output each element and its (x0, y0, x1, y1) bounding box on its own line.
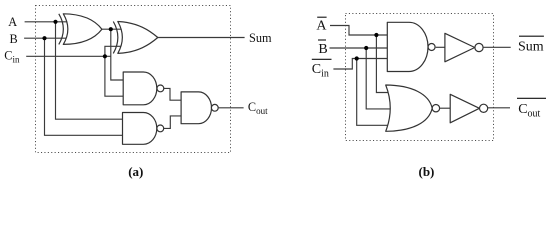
inverter U7 (445, 33, 483, 62)
wire Cin-bar branch to NOR (357, 59, 392, 126)
svg-text:B: B (10, 32, 18, 46)
svg-text:Cout: Cout (248, 100, 268, 116)
dashed enclosure box (b) (346, 14, 494, 141)
svg-text:Cin: Cin (4, 49, 20, 65)
XOR gate U2 (sum) (113, 22, 158, 54)
junction dot B (42, 36, 46, 40)
svg-text:Cin: Cin (312, 62, 329, 80)
wire NOR U8 to inverter U9 (440, 107, 451, 109)
junction dot A (53, 20, 57, 24)
overline of Sum-bar (519, 35, 544, 37)
overline of A-bar (317, 16, 326, 18)
junction dot A-bar (374, 33, 378, 37)
dashed enclosure box (a) (36, 6, 231, 153)
wire XOR1 branch to NAND1 (111, 29, 123, 80)
wire Cout output (218, 107, 244, 109)
overline of B-bar (318, 39, 326, 41)
wire Cin branch to XOR2 and NAND1 (105, 46, 123, 96)
inverter U9 (450, 94, 488, 123)
NAND gate U4 (bottom) (123, 113, 164, 145)
wire input A (25, 21, 68, 23)
wire NAND U6 to inverter U7 (436, 46, 446, 48)
overline of Cin-bar (312, 58, 332, 60)
wire Cout-bar output (488, 107, 510, 109)
NAND gate U6 (387, 22, 435, 71)
wire NAND U3 to NAND U5 (163, 88, 181, 100)
wire B-bar branch to NOR (366, 48, 392, 109)
XOR gate U1 (A xor B) (59, 14, 102, 45)
wire Sum output (158, 37, 245, 39)
wire input B (24, 37, 67, 39)
svg-text:(b): (b) (419, 164, 435, 179)
wire A-bar branch to NOR (376, 35, 392, 93)
svg-text:A: A (8, 15, 17, 29)
junction dot Cin (103, 54, 107, 58)
svg-text:B: B (318, 42, 327, 57)
NAND gate U3 (middle) (123, 72, 164, 105)
wire B-bar input (330, 47, 388, 49)
svg-text:A: A (316, 18, 327, 33)
wire input Cin (26, 55, 111, 57)
svg-text:Sum: Sum (518, 40, 544, 55)
wire B branch to NAND2 (45, 38, 123, 135)
wire A-bar input (330, 26, 387, 36)
svg-text:Sum: Sum (249, 31, 272, 45)
wire Sum-bar output (483, 46, 511, 48)
svg-text:(a): (a) (128, 164, 143, 179)
junction dot Cin-bar (355, 56, 359, 60)
overline of Cout-bar (517, 97, 546, 99)
junction dot B-bar (364, 46, 368, 50)
wire XOR1 output to XOR2 (102, 28, 122, 30)
wire Cin-bar input (333, 59, 387, 70)
wire NAND U4 to NAND U5 (163, 116, 181, 128)
svg-text:Cout: Cout (518, 102, 540, 120)
NAND gate U5 (output) (181, 92, 218, 124)
wire A branch to NAND2 (56, 22, 123, 119)
junction dot XOR1 output (109, 27, 113, 31)
NOR gate U8 (386, 85, 440, 131)
